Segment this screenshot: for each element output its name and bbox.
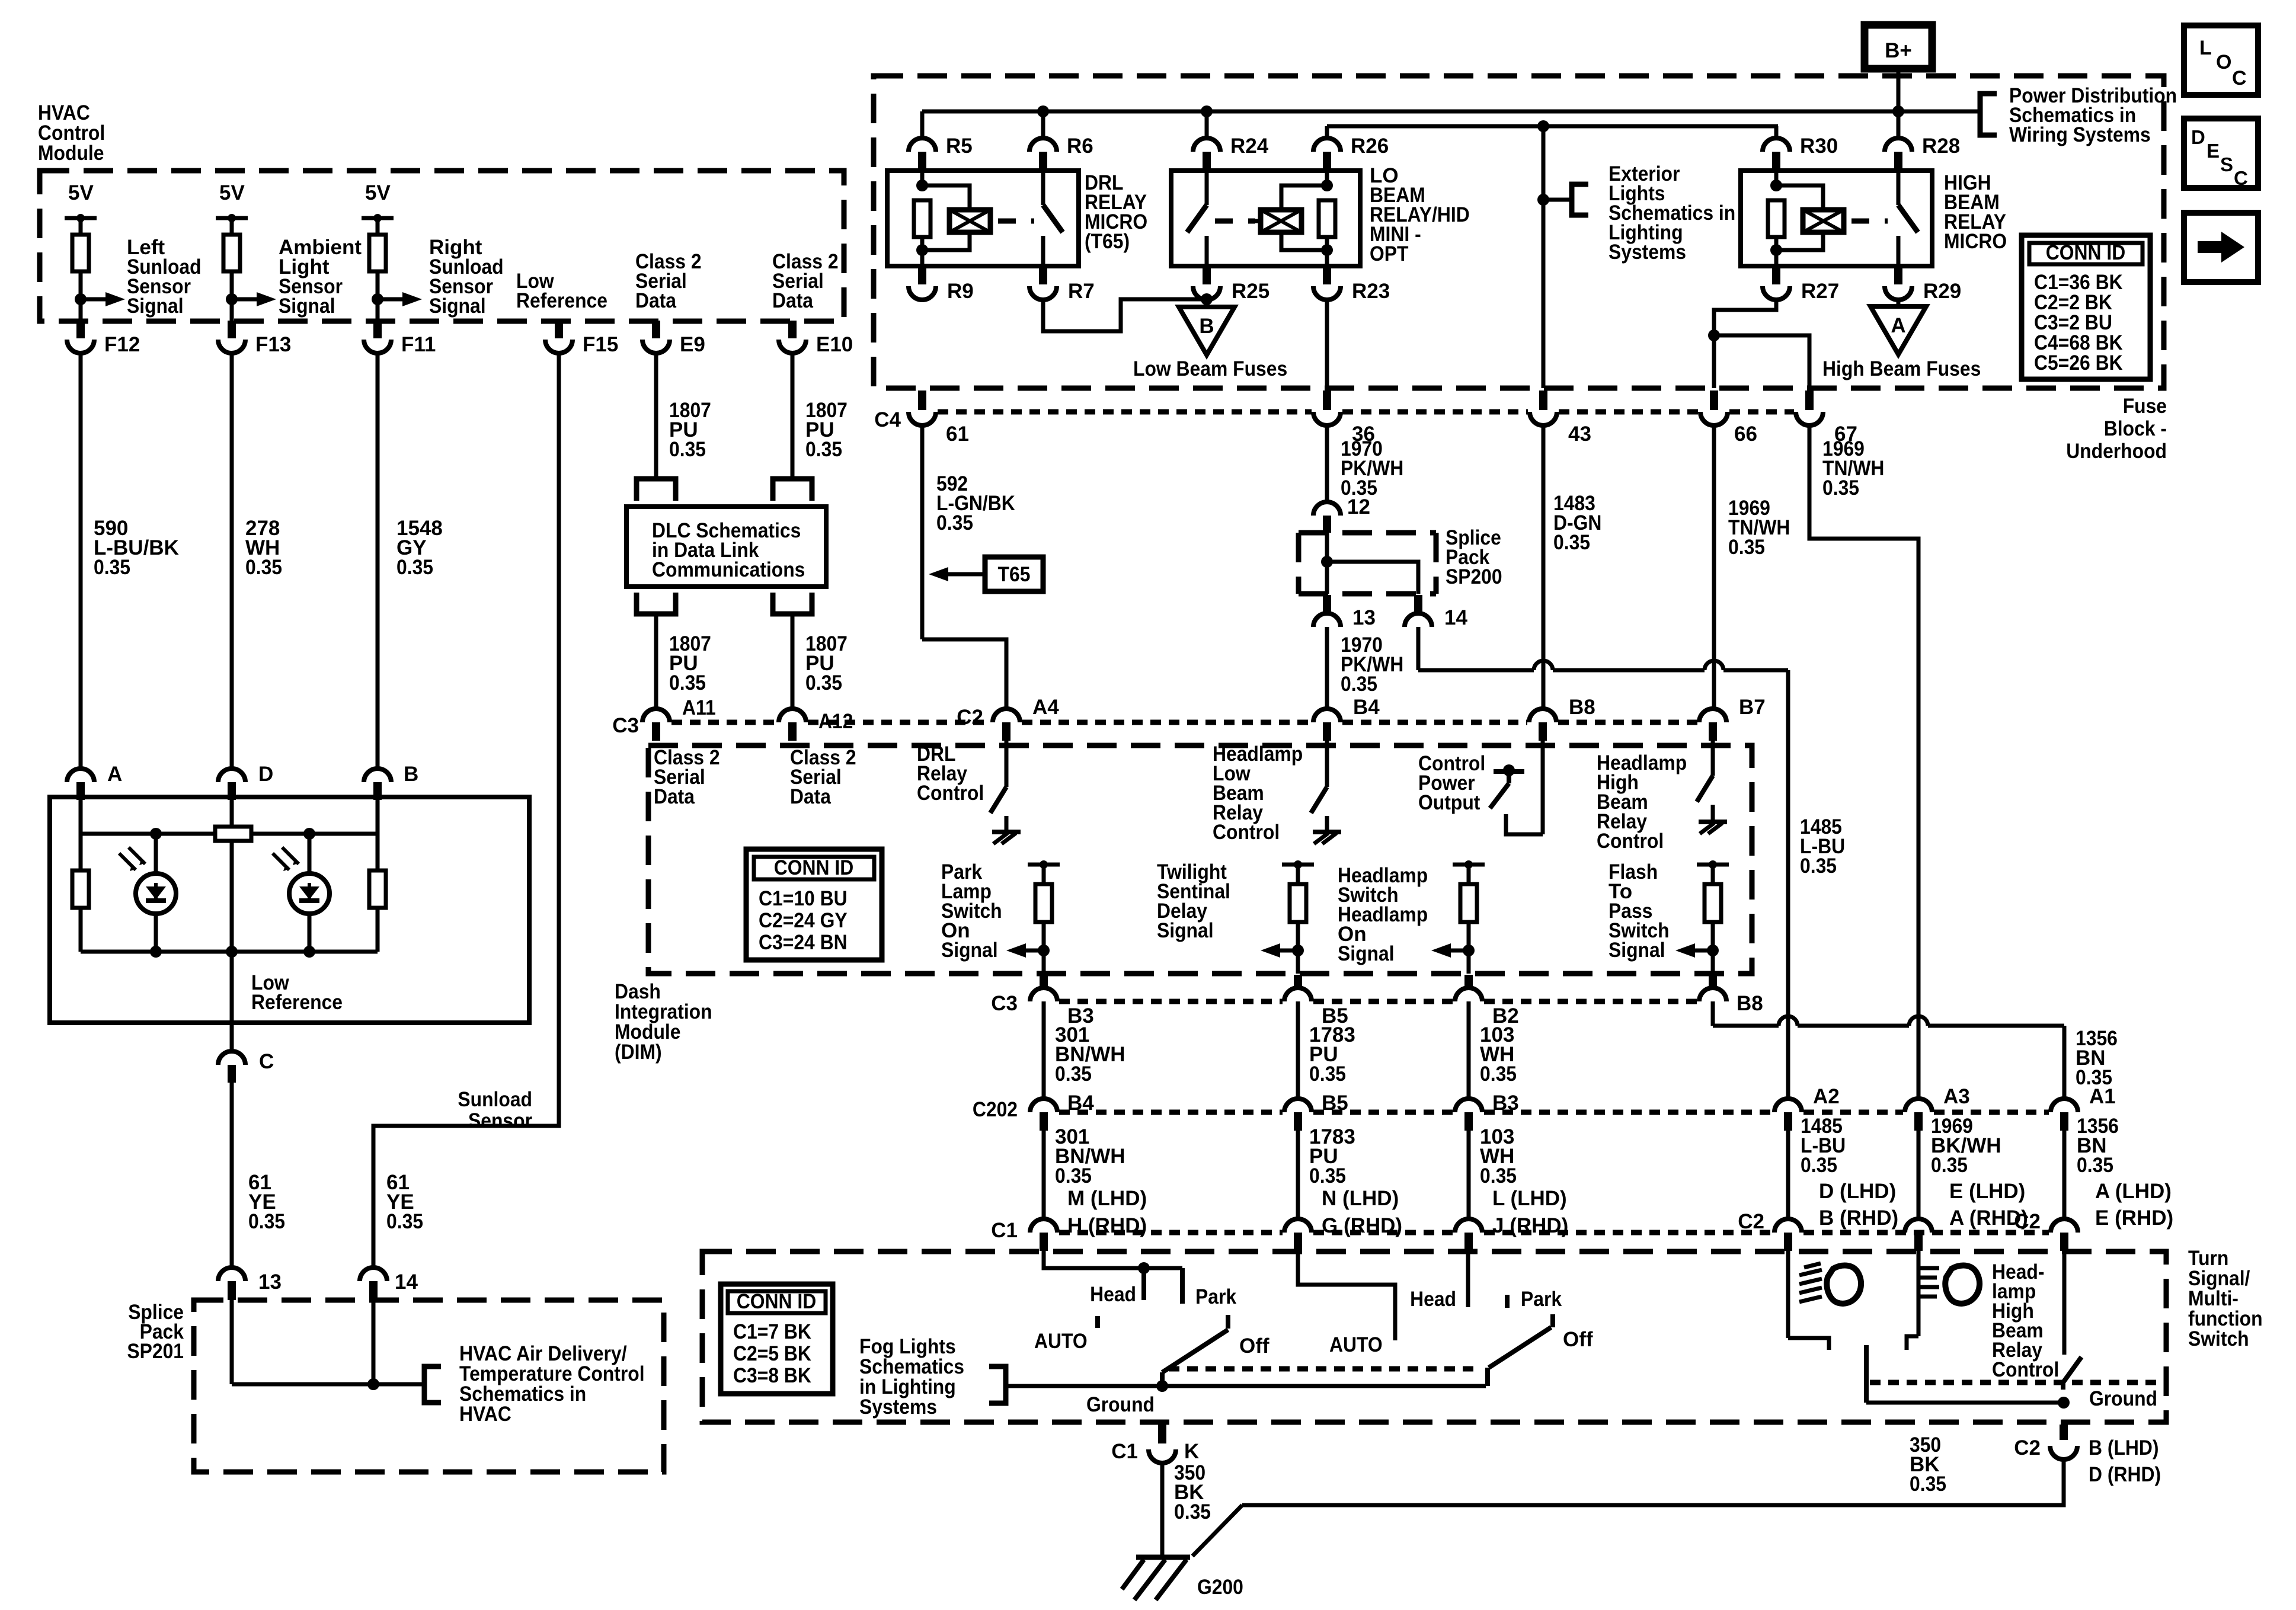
wire R5 feed: [920, 111, 925, 138]
wire head park feed: [1044, 1251, 1182, 1268]
svg-text:0.35: 0.35: [669, 671, 706, 694]
bracket exterior lights: [1572, 184, 1588, 215]
svg-text:SP200: SP200: [1446, 565, 1502, 588]
arrow park lamp switch on signal signal: [1026, 949, 1044, 953]
wire 5V tee bar: [65, 216, 97, 220]
svg-text:Signal: Signal: [1609, 939, 1665, 962]
wire 1969 lower: [1917, 1131, 1921, 1219]
wire DRL control output: [1005, 816, 1009, 830]
resistor divider center: [215, 827, 251, 841]
wire sensor signal down: [230, 353, 234, 769]
svg-text:R23: R23: [1352, 280, 1390, 303]
connector C2 row A2: [1774, 1219, 1802, 1233]
svg-text:5V: 5V: [365, 181, 391, 204]
wire 67 branch: [1714, 335, 1809, 388]
right switch pivot jog: [1485, 1368, 1490, 1386]
wire LO shunt bottom: [1325, 237, 1329, 250]
connector cavity R25: [1193, 286, 1220, 300]
svg-text:C1=10 BU: C1=10 BU: [759, 887, 848, 910]
connector B8 lower: [1699, 988, 1726, 1001]
connector B7 stub: [1709, 722, 1717, 741]
svg-text:R7: R7: [1068, 280, 1095, 303]
wire 1485 down to A2: [1786, 670, 1790, 1099]
wire headlamp switch headlamp on signal tee bar: [1453, 863, 1485, 867]
connector cavity 66: [1700, 412, 1728, 425]
svg-text:C2: C2: [1738, 1210, 1764, 1233]
svg-text:B7: B7: [1739, 696, 1766, 719]
wire 66 down: [1712, 335, 1716, 388]
connector B4: [1313, 709, 1341, 722]
svg-text:Signal: Signal: [1338, 942, 1395, 965]
connector K stub: [1158, 1425, 1166, 1443]
B+ terminal box: [1865, 25, 1932, 69]
wire 14 to corner: [1416, 627, 1421, 670]
junction flash to pass switch signal top: [1709, 860, 1717, 869]
connector A12 stub: [788, 722, 797, 741]
svg-text:B8: B8: [1569, 696, 1595, 719]
connector C2 row A3: [1905, 1219, 1932, 1233]
svg-text:Off: Off: [1239, 1334, 1269, 1358]
junction bottom bus: [303, 946, 315, 958]
arrow T65 to wire: [948, 572, 985, 577]
wire node to module edge: [230, 299, 234, 321]
svg-text:0.35: 0.35: [1480, 1062, 1517, 1086]
switch linkage dashed: [1169, 1366, 1476, 1372]
wire B8 to flash feed: [1711, 1001, 1715, 1026]
wire 1969 TN/WH down: [1712, 425, 1716, 709]
resistor HIGH coil shunt: [1768, 200, 1785, 237]
svg-text:0.35: 0.35: [1480, 1164, 1517, 1188]
dotted connector row fuse block: [938, 409, 1312, 415]
wire high beam contact: [1907, 1336, 1918, 1350]
bus2 exterior lights: [1327, 124, 1778, 129]
Fog lights / multifunction switch box: [702, 1251, 2166, 1422]
control power switch blade: [1490, 783, 1509, 808]
wire LO switch output: [1205, 236, 1209, 266]
connector stub B2: [1464, 975, 1473, 988]
connector cavity R23: [1313, 286, 1341, 300]
wire LO coil top link: [1281, 185, 1327, 210]
junction left switch pivot: [1156, 1380, 1168, 1392]
svg-text:B (RHD): B (RHD): [1819, 1206, 1898, 1230]
connector cavity R7: [1029, 286, 1057, 300]
wire flash to pass feed: [1713, 1024, 1779, 1028]
svg-text:E10: E10: [816, 333, 853, 356]
svg-text:0.35: 0.35: [1174, 1500, 1211, 1523]
ground high beam control: [1699, 820, 1727, 824]
wire class2 serial down: [654, 353, 658, 479]
connector F11 stub: [373, 321, 382, 338]
wire headlamp switch headlamp on signal resistor to node: [1467, 922, 1471, 950]
wire R7 to low beam fuses: [1043, 299, 1203, 331]
svg-text:Head: Head: [1410, 1288, 1456, 1311]
connector 12: [1313, 502, 1341, 516]
wire resistor to arrow node: [230, 271, 234, 299]
connector C3/A11 stub: [652, 722, 660, 741]
resistor sensor pull-up: [223, 235, 240, 271]
svg-text:B: B: [1199, 315, 1214, 338]
svg-text:HVAC: HVAC: [459, 1403, 511, 1426]
cavity R24 stub: [1203, 152, 1211, 169]
left switch blade tick: [1226, 1315, 1230, 1329]
junction bus R6: [1037, 105, 1049, 117]
junction DRL coil bottom: [916, 244, 928, 256]
svg-text:Signal: Signal: [941, 939, 998, 962]
svg-text:A11: A11: [682, 696, 716, 719]
photodiode circle: [136, 873, 176, 914]
connector F15: [545, 340, 573, 353]
svg-text:12: 12: [1347, 495, 1370, 518]
connector B5 stub: [1294, 1112, 1302, 1131]
junction bus B+: [1892, 105, 1904, 117]
svg-text:Signal: Signal: [1157, 919, 1214, 942]
svg-text:A2: A2: [1813, 1085, 1840, 1108]
wire low ref to C: [230, 1023, 234, 1051]
wire park lamp switch on signal to DIM edge: [1042, 950, 1046, 974]
svg-text:14: 14: [1444, 606, 1467, 629]
wire R27 to 66/67: [1714, 300, 1776, 335]
connector C: [218, 1051, 245, 1065]
svg-text:C2: C2: [2014, 1436, 2041, 1459]
flash pivot jog: [2061, 1382, 2065, 1390]
LO relay switch blade: [1187, 205, 1207, 232]
legend arrow: [2198, 241, 2221, 253]
svg-text:C3=24 BN: C3=24 BN: [759, 931, 848, 954]
junction LO coil top: [1321, 180, 1333, 191]
connector stub B5: [1294, 975, 1302, 988]
park contact corner: [1180, 1268, 1185, 1304]
wire high beam control output: [1711, 805, 1715, 820]
wire 592 down: [920, 425, 925, 639]
connector F12 stub: [76, 321, 85, 338]
connector A3: [1905, 1099, 1932, 1112]
wire photodiode top: [154, 834, 158, 874]
connector F15 stub: [555, 321, 563, 338]
wire 1783 2190: [1296, 1001, 1300, 1099]
photodiode light arrows: [273, 853, 289, 870]
DLC Schematics box: [626, 507, 826, 587]
junction signal node: [75, 293, 87, 305]
wire HIGH coil bottom link: [1776, 232, 1823, 250]
svg-text:R24: R24: [1230, 135, 1269, 158]
svg-text:0.35: 0.35: [1910, 1473, 1946, 1496]
connector cavity 36: [1313, 412, 1341, 425]
connector pin stub: [76, 782, 85, 800]
svg-text:C: C: [2232, 67, 2247, 89]
HIGH relay switch blade: [1898, 205, 1918, 232]
svg-text:K: K: [1184, 1440, 1199, 1463]
connector C2 bottom stub: [2060, 1425, 2068, 1440]
wire 67 to A3 column: [1809, 425, 1918, 1099]
wire R30 into relay: [1774, 169, 1779, 185]
svg-text:Communications: Communications: [652, 558, 805, 581]
svg-text:G200: G200: [1197, 1576, 1243, 1599]
wire twilight sentinal delay signal to DIM edge: [1296, 950, 1300, 974]
dotted connector row DIM top: [671, 720, 777, 725]
wire 350 diagonal to ground: [1192, 1505, 1242, 1556]
svg-text:61: 61: [946, 422, 969, 446]
DLC bottom staple: [773, 593, 812, 614]
svg-text:Control: Control: [1213, 821, 1280, 844]
svg-text:0.35: 0.35: [1822, 476, 1859, 500]
wire headlamp switch headlamp on signal to resistor: [1467, 865, 1471, 884]
wire 5V tee bar: [362, 216, 394, 220]
wire low beam contact: [1788, 1338, 1829, 1350]
svg-text:Output: Output: [1418, 791, 1480, 814]
svg-text:0.35: 0.35: [936, 511, 973, 534]
junction twilight sentinal delay signal signal: [1292, 945, 1304, 956]
wire 1483 down: [1542, 425, 1546, 709]
wire 14 inside SP201: [372, 1300, 376, 1384]
connector B8: [1529, 709, 1556, 722]
arrow twilight sentinal delay signal signal: [1280, 949, 1298, 953]
connector K: [1149, 1449, 1176, 1463]
junction 5V: [228, 214, 236, 222]
connector B4 C202: [1030, 1099, 1057, 1112]
connector B3 stub: [1464, 1112, 1473, 1131]
svg-text:0.35: 0.35: [1801, 1154, 1837, 1177]
right switch blade: [1489, 1327, 1551, 1368]
junction park lamp switch on signal signal: [1038, 945, 1050, 956]
svg-text:C3: C3: [991, 992, 1018, 1015]
junction flash ground: [2058, 1397, 2070, 1409]
wire R5 into relay: [920, 169, 925, 185]
connector B8 stub: [1539, 722, 1547, 741]
wire 103 lower 2478: [1467, 1131, 1471, 1219]
connector 13: [218, 1267, 245, 1281]
wire pin D into box: [230, 800, 234, 827]
Fuse Block Underhood box: [874, 76, 2164, 388]
wire photodiode bottom: [308, 914, 312, 952]
right switch blade tick: [1550, 1314, 1555, 1327]
connector B3 C202: [1455, 1099, 1482, 1112]
high beam control switch blade: [1697, 776, 1713, 802]
wire exterior lights vertical: [1542, 126, 1546, 388]
connector B2: [1455, 988, 1482, 1001]
left switch pivot jog: [1160, 1372, 1165, 1386]
photodiode light arrows: [119, 853, 136, 870]
wire DRL shunt bottom: [920, 237, 925, 250]
wire HIGH shunt bottom: [1774, 237, 1779, 250]
wire 350 BK to ground: [1160, 1463, 1165, 1557]
svg-text:C1: C1: [1111, 1440, 1138, 1463]
cavity R28 stub: [1894, 152, 1902, 169]
inner dotted row flash: [1870, 1380, 2157, 1385]
SP200 box bottom: [1299, 591, 1436, 597]
svg-text:O: O: [2216, 51, 2231, 73]
svg-text:F12: F12: [104, 333, 140, 356]
connector cavity 67: [1796, 412, 1823, 425]
wire B+ down: [1897, 69, 1901, 111]
svg-text:5V: 5V: [219, 181, 245, 204]
svg-text:0.35: 0.35: [805, 671, 842, 694]
connector sunload pin: [364, 769, 391, 782]
head contact tick: [1141, 1268, 1146, 1300]
cavity R25 stub: [1203, 268, 1211, 284]
connector cavity R30: [1763, 138, 1790, 152]
AUTO contact tick (left): [1095, 1316, 1100, 1328]
svg-text:Systems: Systems: [1609, 241, 1686, 264]
svg-text:B (LHD): B (LHD): [2089, 1436, 2159, 1459]
DLC bottom staple: [637, 593, 676, 614]
svg-text:E9: E9: [680, 333, 705, 356]
junction twilight sentinal delay signal top: [1294, 860, 1302, 869]
wire R30 feed: [1774, 126, 1779, 138]
wire control power loop: [1506, 814, 1543, 834]
junction exterior lights: [1537, 194, 1549, 206]
svg-text:C: C: [259, 1050, 274, 1073]
wire to exterior bracket: [1543, 198, 1572, 202]
svg-text:F15: F15: [583, 333, 618, 356]
svg-text:0.35: 0.35: [1800, 854, 1837, 878]
svg-text:C2=5 BK: C2=5 BK: [733, 1342, 811, 1365]
svg-text:Data: Data: [654, 785, 695, 808]
junction park lamp switch on signal top: [1040, 860, 1048, 869]
svg-text:C202: C202: [973, 1098, 1018, 1121]
wire top bus right: [251, 832, 378, 836]
svg-text:S: S: [2220, 153, 2233, 175]
wire R28 feed: [1897, 111, 1901, 138]
connector C stub: [228, 1065, 236, 1083]
arrow flash to pass switch signal signal: [1695, 949, 1713, 953]
connector F13 stub: [228, 321, 236, 338]
junction control power: [1503, 764, 1515, 776]
wire DRL coil output: [920, 250, 925, 266]
svg-text:Reference: Reference: [516, 289, 607, 312]
wire R26 into relay: [1325, 169, 1329, 185]
wire 1970 upper: [1325, 425, 1329, 502]
connector F12: [67, 340, 94, 353]
wire R23 down: [1325, 300, 1329, 388]
junction B triangle: [1201, 293, 1213, 305]
connector B5: [1284, 988, 1312, 1001]
DLC top staple: [773, 479, 812, 501]
connector C2 bottom: [2050, 1446, 2077, 1459]
wire 1970 lower: [1325, 627, 1329, 709]
svg-text:13: 13: [258, 1270, 282, 1294]
svg-text:Reference: Reference: [251, 991, 343, 1014]
svg-text:0.35: 0.35: [94, 556, 130, 579]
wire 301 1761: [1042, 1001, 1046, 1099]
cavity stub 43: [1539, 391, 1547, 410]
svg-text:D (RHD): D (RHD): [2089, 1463, 2161, 1486]
resistor right sensor: [369, 870, 386, 908]
control power stub: [1507, 772, 1511, 783]
resistor LO coil shunt: [1319, 200, 1335, 237]
relay coil LO BEAM: [1261, 210, 1302, 232]
wire pin B into box: [376, 800, 380, 834]
cavity R30 stub: [1772, 152, 1780, 169]
svg-text:0.35: 0.35: [245, 556, 282, 579]
connector cavity R5: [909, 138, 936, 152]
svg-text:0.35: 0.35: [1931, 1154, 1968, 1177]
svg-text:A3: A3: [1943, 1085, 1970, 1108]
wire flash to pass switch signal tee bar: [1697, 863, 1729, 867]
wire right branch down: [376, 834, 380, 870]
svg-text:Data: Data: [790, 785, 831, 808]
svg-text:M (LHD): M (LHD): [1067, 1187, 1147, 1210]
junction top bus photo1: [150, 828, 162, 840]
wire R25 to junction: [1205, 300, 1209, 303]
svg-text:R5: R5: [946, 135, 973, 158]
dotted connector row DIM bottom: [1059, 999, 1283, 1004]
svg-text:CONN ID: CONN ID: [2046, 241, 2126, 264]
svg-text:R30: R30: [1800, 135, 1838, 158]
connector cavity 61: [909, 412, 936, 425]
wire sensor signal down: [79, 353, 83, 769]
wire 5V to resistor: [230, 218, 234, 235]
svg-text:14: 14: [395, 1270, 418, 1294]
svg-text:Signal: Signal: [279, 295, 335, 318]
junction 5V: [76, 214, 85, 222]
junction flash to pass switch signal signal: [1707, 945, 1719, 956]
connector C2 row stub A1: [2060, 1233, 2068, 1251]
wire class2 serial down: [791, 353, 795, 479]
connector A2 stub: [1784, 1112, 1792, 1131]
junction SP201 splice: [367, 1378, 379, 1390]
connector C3/A11: [642, 709, 670, 722]
wire LO coil stub: [1255, 219, 1261, 223]
connector A3 stub: [1914, 1112, 1923, 1131]
svg-text:Ground: Ground: [1086, 1393, 1155, 1416]
connector 13 stub (SP200): [1323, 595, 1331, 613]
wire B8 into DIM: [1541, 741, 1545, 834]
connector stub B3: [1040, 975, 1048, 988]
svg-text:A (LHD): A (LHD): [2095, 1180, 2172, 1203]
svg-text:0.35: 0.35: [1309, 1062, 1346, 1086]
svg-text:5V: 5V: [68, 181, 94, 204]
wire low reference F15 return: [373, 353, 559, 1268]
connector C2 row stub A2: [1784, 1233, 1792, 1251]
svg-text:0.35: 0.35: [1553, 531, 1590, 554]
svg-text:E (RHD): E (RHD): [2095, 1206, 2173, 1230]
junction headlamp switch headlamp on signal top: [1464, 860, 1473, 869]
wire resistor to arrow node: [79, 271, 83, 299]
resistor flash to pass switch signal: [1705, 884, 1721, 922]
wire DRL coil top link: [922, 185, 970, 210]
junction signal node: [372, 293, 383, 305]
resistor DRL coil shunt: [914, 200, 930, 237]
junction HIGH coil bottom: [1770, 244, 1782, 256]
cavity R27 stub: [1772, 268, 1780, 284]
svg-text:Signal: Signal: [429, 295, 486, 318]
relay coil HIGH BEAM: [1803, 210, 1844, 232]
resistor twilight sentinal delay signal: [1290, 884, 1306, 922]
svg-text:C1=7 BK: C1=7 BK: [733, 1320, 811, 1343]
svg-text:(T65): (T65): [1085, 230, 1130, 253]
wire node to module edge: [376, 299, 380, 321]
svg-text:0.35: 0.35: [805, 438, 842, 461]
SP200 box top: [1299, 530, 1436, 536]
resistor headlamp switch headlamp on signal: [1460, 884, 1477, 922]
svg-text:Fuse: Fuse: [2123, 395, 2167, 418]
SP200 box left: [1296, 533, 1302, 594]
wire pin A into box: [79, 800, 83, 834]
svg-text:43: 43: [1568, 422, 1591, 446]
wire 12 to splice: [1325, 533, 1329, 562]
connector F13: [218, 340, 245, 353]
svg-text:Systems: Systems: [859, 1395, 937, 1419]
fuse symbol B triangle: [1179, 307, 1235, 355]
wire twilight sentinal delay signal tee bar: [1282, 863, 1314, 867]
wire LO coil output: [1325, 250, 1329, 266]
low beam control switch blade: [1311, 787, 1327, 813]
cavity R9 stub: [918, 268, 926, 284]
wire 14 splice to A2 column: [1418, 668, 1534, 673]
park tick right switch: [1505, 1295, 1510, 1308]
wire node to module edge: [79, 299, 83, 321]
wire R24 feed: [1205, 111, 1209, 138]
